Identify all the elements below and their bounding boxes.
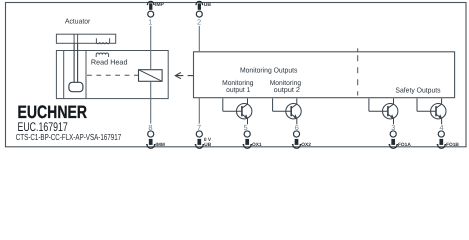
- svg-text:2: 2: [197, 17, 201, 26]
- wire read head to pin 8: [150, 99, 152, 124]
- svg-text:Safety Outputs: Safety Outputs: [395, 86, 441, 95]
- transistor Q3: [369, 98, 398, 124]
- pin 5 connector OX1: [243, 123, 262, 149]
- dashed section separator: [357, 55, 359, 95]
- pin 7 connector 0V / UB: [195, 123, 212, 149]
- transistor Q2: [273, 98, 302, 124]
- section tick on box top: [357, 48, 359, 52]
- actuator bar divider left: [73, 34, 75, 43]
- svg-text:output 1: output 1: [226, 87, 250, 94]
- svg-text:IMP: IMP: [155, 2, 165, 8]
- main box: [194, 52, 455, 98]
- read head inner wall right: [85, 51, 87, 99]
- svg-text:Monitoring: Monitoring: [270, 79, 301, 87]
- border frame: [6, 3, 467, 147]
- svg-text:UB: UB: [204, 142, 211, 148]
- wire solenoid feed top: [150, 51, 152, 70]
- svg-text:Monitoring Outputs: Monitoring Outputs: [240, 65, 298, 74]
- transistor Q1: [223, 98, 252, 124]
- read head coil L2: [96, 53, 108, 57]
- svg-text:output 2: output 2: [274, 87, 300, 94]
- svg-text:CTS-C1-BP-CC-FLX-AP-VSA-167917: CTS-C1-BP-CC-FLX-AP-VSA-167917: [16, 132, 121, 142]
- svg-text:FO1B: FO1B: [446, 142, 459, 148]
- svg-text:UB: UB: [204, 2, 212, 8]
- wire pin 2 to main box: [198, 26, 200, 52]
- actuator tongue right line: [77, 43, 79, 82]
- svg-text:OX1: OX1: [252, 142, 262, 148]
- actuator bar: [56, 34, 115, 43]
- svg-text:FO1A: FO1A: [398, 142, 411, 148]
- dashed link wire: [87, 74, 139, 76]
- actuator tongue left line: [73, 43, 75, 82]
- wire pin 1 to read head: [150, 26, 152, 51]
- svg-text:Monitoring: Monitoring: [222, 79, 253, 87]
- wire main box to pin 7: [198, 98, 200, 124]
- actuator coil L1: [96, 38, 109, 44]
- pin 6 connector OX2: [292, 123, 311, 149]
- svg-text:OX2: OX2: [301, 142, 311, 148]
- pin 8 connector IMM: [146, 123, 165, 149]
- pin 2 connector UB: [195, 1, 211, 26]
- pin 4 connector FO1B: [437, 123, 460, 149]
- solenoid box with diagonal: [139, 70, 163, 82]
- svg-text:IMM: IMM: [156, 142, 165, 148]
- svg-text:1: 1: [148, 17, 152, 26]
- wire solenoid feed bottom: [150, 81, 152, 98]
- transistor Q4: [417, 98, 446, 124]
- read head inner wall left: [63, 51, 65, 99]
- svg-text:Actuator: Actuator: [65, 17, 91, 26]
- wire arrow to main box: [188, 75, 194, 77]
- pin 3 connector FO1A: [389, 123, 412, 149]
- pin 1 connector IMP: [147, 1, 165, 26]
- read head box: [56, 51, 168, 99]
- actuator bar divider right: [77, 34, 79, 43]
- arrow chevron into read head: [175, 73, 183, 79]
- svg-text:Read Head: Read Head: [91, 58, 128, 67]
- locking bolt capsule: [69, 82, 83, 91]
